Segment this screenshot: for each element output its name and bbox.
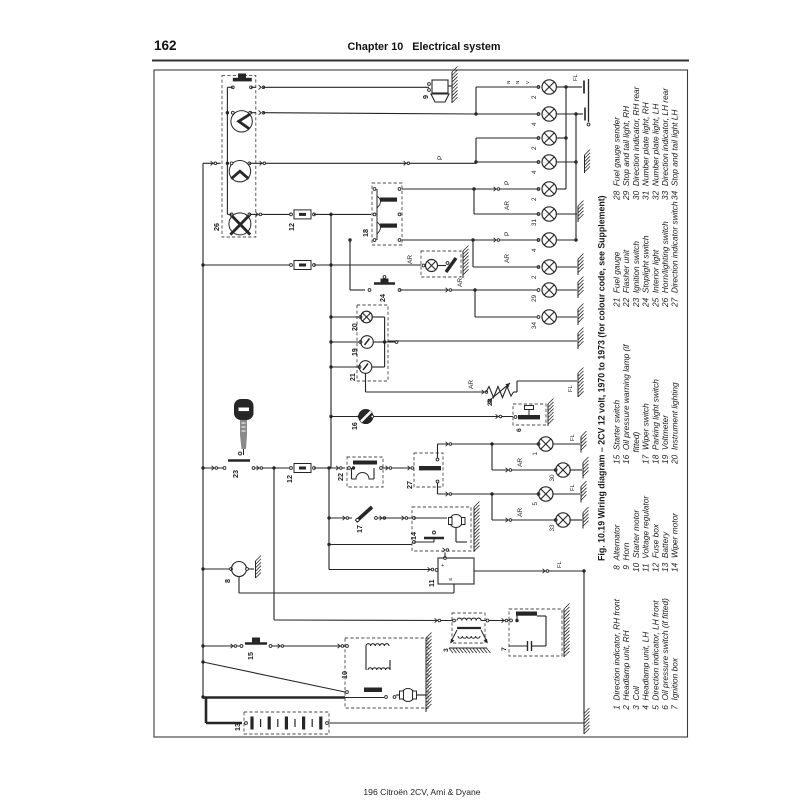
svg-text:2: 2 xyxy=(531,95,538,99)
svg-text:AR: AR xyxy=(407,255,414,264)
svg-text:21 Fuel gauge: 21 Fuel gauge xyxy=(612,251,622,308)
svg-text:14 Wiper motor: 14 Wiper motor xyxy=(670,512,680,572)
svg-text:24 Stoplight switch: 24 Stoplight switch xyxy=(641,235,651,308)
svg-text:34: 34 xyxy=(531,321,538,329)
svg-text:16 Oil pressure warning lamp: 16 Oil pressure warning lamp (if xyxy=(621,343,631,464)
svg-text:162: 162 xyxy=(154,38,177,53)
svg-text:16: 16 xyxy=(352,422,359,430)
svg-text:34 Stop and tail light LH: 34 Stop and tail light LH xyxy=(670,110,680,200)
svg-text:23: 23 xyxy=(231,470,240,478)
svg-text:10 Starter motor: 10 Starter motor xyxy=(631,509,641,572)
svg-text:27: 27 xyxy=(405,481,414,489)
svg-text:P: P xyxy=(504,232,511,236)
svg-text:2: 2 xyxy=(531,275,538,279)
svg-text:18: 18 xyxy=(361,229,370,237)
svg-text:26 Horn/lighting switch: 26 Horn/lighting switch xyxy=(660,221,670,308)
svg-text:7: 7 xyxy=(501,647,508,651)
svg-text:AR: AR xyxy=(504,201,511,210)
svg-text:18 Parking light switch: 18 Parking light switch xyxy=(650,379,660,464)
svg-text:4: 4 xyxy=(531,170,538,174)
svg-text:33 Direction indicator, LH re: 33 Direction indicator, LH rear xyxy=(660,87,670,200)
svg-text:Chapter 10 Electrical system: Chapter 10 Electrical system xyxy=(347,41,500,53)
svg-text:1 Direction indicator, RH fro: 1 Direction indicator, RH front xyxy=(612,598,622,712)
svg-text:33: 33 xyxy=(549,524,556,532)
svg-text:4 Headlamp unit, LH: 4 Headlamp unit, LH xyxy=(641,632,651,712)
svg-text:5: 5 xyxy=(532,502,539,506)
svg-text:FL: FL xyxy=(570,483,576,491)
svg-text:4: 4 xyxy=(531,248,538,252)
svg-text:196 Citroën 2CV, Ami & Dyane: 196 Citroën 2CV, Ami & Dyane xyxy=(363,787,480,797)
svg-text:30 Direction indicator, RH re: 30 Direction indicator, RH rear xyxy=(631,85,641,200)
svg-text:32 Number plate light, LH: 32 Number plate light, LH xyxy=(650,104,660,200)
svg-text:AR: AR xyxy=(517,508,524,517)
svg-text:9: 9 xyxy=(421,95,430,99)
svg-text:10: 10 xyxy=(340,671,349,679)
svg-text:21: 21 xyxy=(350,373,357,381)
svg-text:17 Wiper switch: 17 Wiper switch xyxy=(641,403,651,464)
svg-text:22: 22 xyxy=(336,473,345,481)
svg-text:5 Direction indicator, LH fro: 5 Direction indicator, LH front xyxy=(650,600,660,712)
svg-text:27 Direction indicator switch: 27 Direction indicator switch xyxy=(670,201,680,308)
svg-text:28: 28 xyxy=(487,398,494,406)
svg-text:29 Stop and tail light, RH: 29 Stop and tail light, RH xyxy=(621,106,631,201)
svg-text:2: 2 xyxy=(531,146,538,150)
svg-text:13: 13 xyxy=(233,723,242,731)
svg-text:N: N xyxy=(515,81,520,84)
svg-text:9 Horn: 9 Horn xyxy=(621,542,631,572)
svg-text:2: 2 xyxy=(531,197,538,201)
svg-text:20: 20 xyxy=(352,323,359,331)
svg-text:22 Flasher unit: 22 Flasher unit xyxy=(621,249,631,308)
svg-text:4: 4 xyxy=(531,122,538,126)
svg-text:6: 6 xyxy=(516,428,523,432)
svg-text:6 Oil pressure switch (if fit: 6 Oil pressure switch (if fitted) xyxy=(660,598,670,712)
svg-text:25 Interior light: 25 Interior light xyxy=(650,249,660,308)
svg-text:fitted): fitted) xyxy=(631,431,641,464)
svg-text:17: 17 xyxy=(355,525,364,533)
svg-text:11: 11 xyxy=(427,579,436,587)
svg-text:19: 19 xyxy=(352,348,359,356)
svg-text:26: 26 xyxy=(212,223,221,231)
svg-text:31 Number plate light, RH: 31 Number plate light, RH xyxy=(641,102,651,200)
svg-text:FL: FL xyxy=(568,384,574,392)
svg-text:15: 15 xyxy=(246,652,255,660)
svg-text:12: 12 xyxy=(287,223,296,231)
svg-text:11 Voltage regulator: 11 Voltage regulator xyxy=(641,495,651,572)
svg-text:12 Fuse box: 12 Fuse box xyxy=(650,523,660,572)
svg-text:AR: AR xyxy=(517,458,524,467)
svg-text:14: 14 xyxy=(409,532,418,540)
svg-text:19 Voltmeter: 19 Voltmeter xyxy=(660,414,670,464)
svg-text:P: P xyxy=(504,181,511,185)
svg-text:FL: FL xyxy=(557,560,563,568)
svg-text:N: N xyxy=(506,81,511,84)
svg-text:15 Starter switch: 15 Starter switch xyxy=(612,400,622,464)
svg-text:20 Instrument lighting: 20 Instrument lighting xyxy=(670,382,680,465)
svg-text:30: 30 xyxy=(549,474,556,482)
svg-text:7 Ignition box: 7 Ignition box xyxy=(670,657,680,712)
svg-text:28 Fuel gauge sender: 28 Fuel gauge sender xyxy=(612,116,622,201)
svg-text:Fig. 10.19 Wiring diagram – 2C: Fig. 10.19 Wiring diagram – 2CV 12 volt,… xyxy=(597,195,607,561)
svg-text:8 Alternator: 8 Alternator xyxy=(612,523,622,572)
svg-text:1: 1 xyxy=(532,452,539,456)
svg-text:AR: AR xyxy=(468,380,475,389)
svg-text:+: + xyxy=(441,563,444,569)
svg-text:8: 8 xyxy=(223,579,232,583)
svg-text:≤: ≤ xyxy=(448,578,454,581)
svg-text:31: 31 xyxy=(531,219,538,226)
svg-text:FL: FL xyxy=(573,73,579,81)
svg-text:2 Headlamp unit, RH: 2 Headlamp unit, RH xyxy=(621,630,631,712)
svg-text:29: 29 xyxy=(531,294,538,302)
svg-text:AR: AR xyxy=(457,278,464,287)
svg-text:12: 12 xyxy=(285,475,294,483)
svg-text:23 Ignition switch: 23 Ignition switch xyxy=(631,241,641,308)
svg-text:AR: AR xyxy=(504,254,511,263)
svg-text:3 Coil: 3 Coil xyxy=(631,685,641,712)
svg-text:24: 24 xyxy=(378,294,387,302)
svg-text:P: P xyxy=(437,156,444,160)
svg-text:FL: FL xyxy=(570,433,576,441)
svg-text:3: 3 xyxy=(443,648,450,652)
svg-text:13 Battery: 13 Battery xyxy=(660,531,670,572)
